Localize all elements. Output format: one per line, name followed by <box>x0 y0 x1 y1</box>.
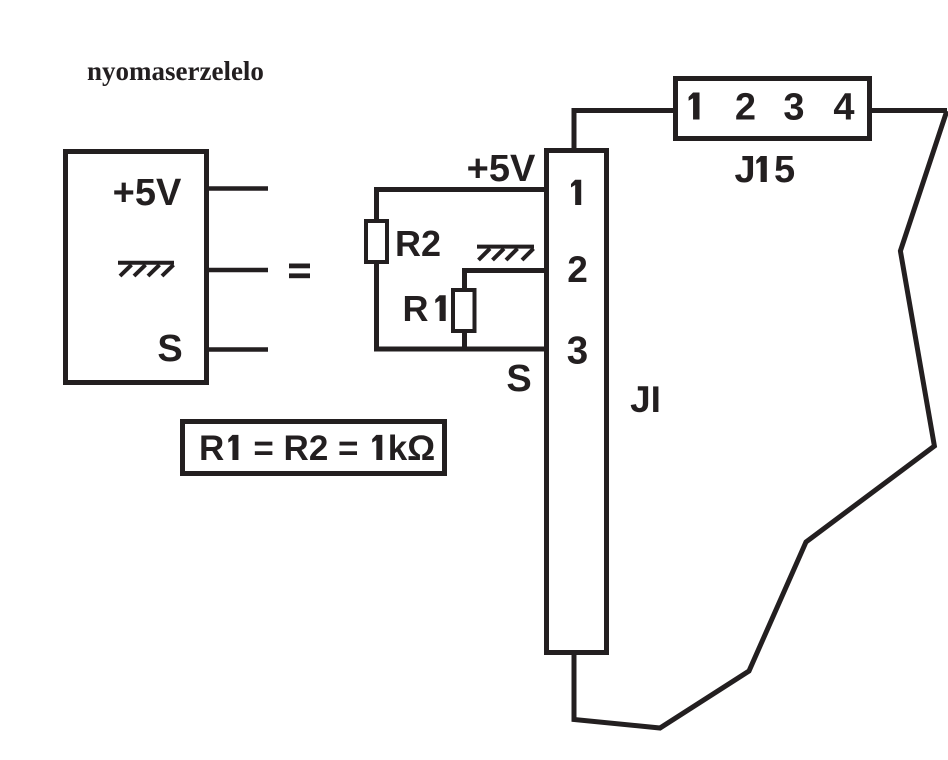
svg-text:3: 3 <box>783 87 804 129</box>
board outline polyline <box>574 111 947 728</box>
svg-text:JI: JI <box>630 379 661 420</box>
svg-text:= R2 =: = R2 = <box>253 429 358 468</box>
ground symbol (network) <box>477 247 534 260</box>
svg-text:J: J <box>735 149 756 191</box>
wire left vertical bottom <box>374 262 379 349</box>
svg-text:+5V: +5V <box>467 148 536 190</box>
wire J15 right to board <box>870 108 947 113</box>
connector JI body <box>547 151 607 653</box>
svg-text:R: R <box>199 429 224 468</box>
wire top horizontal (+5V to pin1) <box>374 187 546 192</box>
svg-text:nyomaserzelelo: nyomaserzelelo <box>87 56 264 86</box>
wire left vertical top <box>374 187 379 221</box>
value box R1 = R2 = 1kΩ <box>183 422 445 474</box>
J15 pin 1 <box>689 92 700 119</box>
wire pin3 stub (S) <box>206 347 268 352</box>
svg-text:R: R <box>403 288 429 329</box>
sensor box U1 <box>66 152 207 383</box>
wire R1 vertical bottom <box>462 331 467 351</box>
wire bottom horizontal (S net) <box>374 347 546 352</box>
svg-text:S: S <box>506 358 531 400</box>
equals sign <box>289 264 310 279</box>
svg-text:2: 2 <box>567 249 588 290</box>
wire pin1 stub (+5V) <box>206 186 268 191</box>
wire top horizontal to J15 <box>572 108 677 113</box>
svg-text:kΩ: kΩ <box>388 429 436 468</box>
wire pin2 stub (gnd) <box>206 268 268 273</box>
resistor R2 <box>366 221 387 262</box>
svg-text:3: 3 <box>567 330 588 373</box>
wire JI top vertical <box>572 108 577 150</box>
ground symbol (sensor) <box>118 263 174 276</box>
wire R1 vertical top <box>462 268 467 290</box>
svg-text:+5V: +5V <box>113 172 182 214</box>
svg-text:R2: R2 <box>395 223 441 264</box>
svg-text:5: 5 <box>774 149 795 191</box>
resistor R1 <box>453 290 475 331</box>
svg-text:2: 2 <box>735 87 756 129</box>
svg-text:S: S <box>157 328 182 370</box>
connector J15 body <box>676 79 870 139</box>
svg-text:4: 4 <box>833 87 854 129</box>
wire ground horizontal (pin2) <box>462 268 546 273</box>
pin 1 label <box>571 180 581 205</box>
